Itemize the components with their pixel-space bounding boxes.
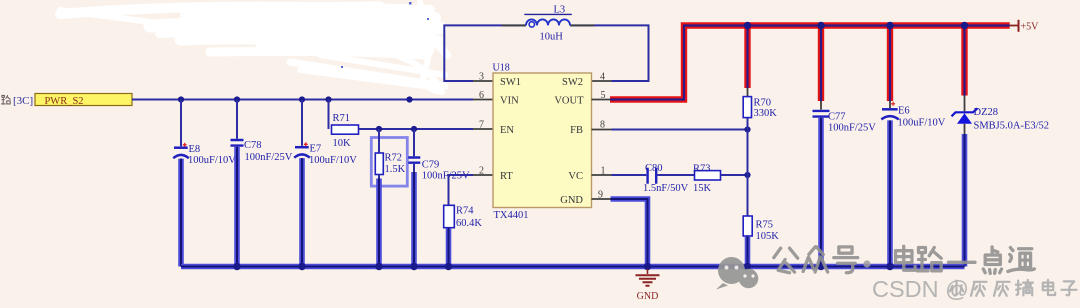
node dots on ground rail [233, 263, 893, 270]
thick wire ground rail [181, 264, 965, 270]
capacitor C78 [231, 100, 293, 164]
svg-text:60.4K: 60.4K [456, 218, 482, 229]
resistor R70 [743, 88, 777, 119]
thick wire E7 to rail [299, 158, 305, 266]
svg-text:7: 7 [479, 120, 484, 131]
svg-text:E8: E8 [189, 144, 201, 155]
pin 7 stub EN [473, 128, 493, 130]
ground [636, 269, 660, 302]
pin 6 stub VIN [473, 99, 493, 101]
wire RT net [449, 175, 474, 205]
svg-text:SMBJ5.0A-E3/52: SMBJ5.0A-E3/52 [974, 121, 1050, 132]
capacitor E8 [173, 100, 236, 167]
node dots on EN net [376, 126, 417, 132]
svg-text:100nF/25V: 100nF/25V [828, 123, 876, 134]
watermark wechat icon [716, 257, 758, 290]
svg-text:10uH: 10uH [540, 32, 564, 43]
thick wire E6 to rail [887, 120, 893, 266]
svg-text:GND: GND [560, 195, 583, 206]
node VC junction [744, 172, 750, 178]
resistor R73 [693, 163, 721, 194]
svg-text:330K: 330K [754, 108, 778, 119]
svg-text:[3C]: [3C] [13, 95, 33, 107]
thick wire C77 to rail [818, 118, 824, 267]
svg-text:EN: EN [500, 125, 514, 136]
red drop to DZ28 [961, 26, 967, 96]
svg-text:15K: 15K [693, 183, 712, 194]
selection box around R72 [371, 138, 407, 187]
pin names [500, 77, 584, 206]
svg-text:2: 2 [479, 166, 484, 177]
watermark middle dot [863, 260, 870, 267]
watermark text line1 公众号·电路一点通 [774, 246, 1035, 273]
red drop to C77 [818, 26, 824, 102]
thick wire DZ28 to rail [962, 134, 968, 267]
resistor R72 [375, 129, 405, 179]
capacitor C77 [813, 101, 877, 134]
svg-text:R73: R73 [693, 163, 711, 174]
svg-text:10K: 10K [333, 138, 352, 149]
svg-text:100uF/10V: 100uF/10V [898, 118, 946, 129]
svg-text:TX4401: TX4401 [494, 210, 529, 221]
node dots on VIN net [178, 96, 413, 102]
thick wire C78 to rail [234, 147, 240, 267]
wire VC to C80 [612, 174, 647, 176]
svg-text:C77: C77 [828, 112, 846, 123]
svg-text:C80: C80 [645, 163, 663, 174]
svg-text:GND: GND [637, 291, 659, 302]
pin 1 stub VC [592, 174, 612, 176]
svg-text:VIN: VIN [500, 96, 519, 107]
svg-text:100uF/10V: 100uF/10V [309, 155, 357, 166]
resistor R75 [743, 216, 779, 242]
svg-text:E6: E6 [898, 106, 910, 117]
diode DZ28 zener [952, 96, 1050, 135]
svg-text:L3: L3 [554, 5, 566, 16]
svg-text:U18: U18 [493, 63, 510, 74]
pin 5 stub VOUT [592, 99, 611, 101]
thick wire R74 to rail [446, 228, 452, 267]
capacitor C80 [643, 163, 689, 194]
wire SW1 loop to L3 [444, 25, 648, 81]
resistor R71 [329, 100, 359, 150]
svg-text:R74: R74 [456, 206, 474, 217]
power port +5V [1010, 20, 1039, 33]
node dots on +5V bus [744, 22, 968, 29]
svg-text:VOUT: VOUT [554, 96, 584, 107]
svg-text:FB: FB [570, 125, 583, 136]
pin numbers [479, 72, 606, 201]
thick wire GND pin to ground rail [611, 199, 648, 267]
pin 4 stub SW2 [592, 80, 612, 82]
svg-text:PWR_S2: PWR_S2 [44, 96, 83, 107]
white scribble overlay [60, 2, 447, 92]
thick red wire +5V bus [610, 26, 1010, 100]
svg-text:3: 3 [479, 72, 484, 83]
svg-text:R72: R72 [385, 153, 403, 164]
svg-text:CSDN @: CSDN @ [872, 276, 969, 302]
thick wire R75 to rail [745, 236, 751, 267]
thick wire E8 to rail [178, 159, 184, 267]
capacitor E7 [294, 100, 357, 167]
node FB junction [744, 126, 750, 132]
svg-text:R71: R71 [333, 113, 351, 124]
svg-text:1.5K: 1.5K [385, 164, 406, 175]
pin 3 stub SW1 [473, 80, 493, 82]
svg-text:4: 4 [600, 72, 605, 83]
svg-text:C79: C79 [422, 159, 440, 170]
stray specks [341, 2, 429, 68]
wire R73 to node [721, 174, 748, 176]
red drop to R70 [744, 26, 750, 89]
svg-text:SW2: SW2 [562, 77, 583, 88]
svg-text:VC: VC [568, 171, 583, 182]
svg-text:RT: RT [500, 171, 513, 182]
pin 2 stub RT [473, 174, 493, 176]
wire C80 to R73 [657, 174, 694, 176]
wire R70-FB-VC vertical [747, 118, 749, 217]
svg-text:105K: 105K [756, 231, 780, 242]
svg-text:+5V: +5V [1021, 22, 1040, 33]
thick wire C79 to rail [411, 172, 417, 267]
svg-text:R75: R75 [756, 220, 774, 231]
wire net PWR_S2 to VIN [132, 99, 473, 101]
op-amp U1 : IC U18 TX4401 body [493, 63, 592, 222]
capacitor E6 [881, 101, 945, 129]
capacitor C79 [408, 129, 470, 181]
svg-text:E7: E7 [310, 144, 322, 155]
svg-text:DZ28: DZ28 [974, 107, 999, 118]
sheet entry text 路[3C] [1, 95, 33, 107]
pin 9 stub GND [592, 198, 612, 200]
svg-text:SW1: SW1 [500, 77, 521, 88]
svg-text:100nF/25V: 100nF/25V [245, 152, 293, 163]
port PWR_S2 [35, 94, 132, 108]
red drop to E6 [887, 26, 893, 102]
svg-text:6: 6 [479, 90, 484, 101]
svg-text:100uF/10V: 100uF/10V [188, 155, 236, 166]
wire EN net [359, 128, 474, 130]
pin 8 stub FB [592, 129, 612, 131]
svg-text:C78: C78 [244, 140, 262, 151]
wire FB net [612, 129, 748, 131]
thick wire R72 to rail [376, 179, 382, 267]
svg-text:1.5nF/50V: 1.5nF/50V [643, 183, 689, 194]
inductor L3 [502, 24, 594, 26]
resistor R74 [444, 205, 483, 229]
